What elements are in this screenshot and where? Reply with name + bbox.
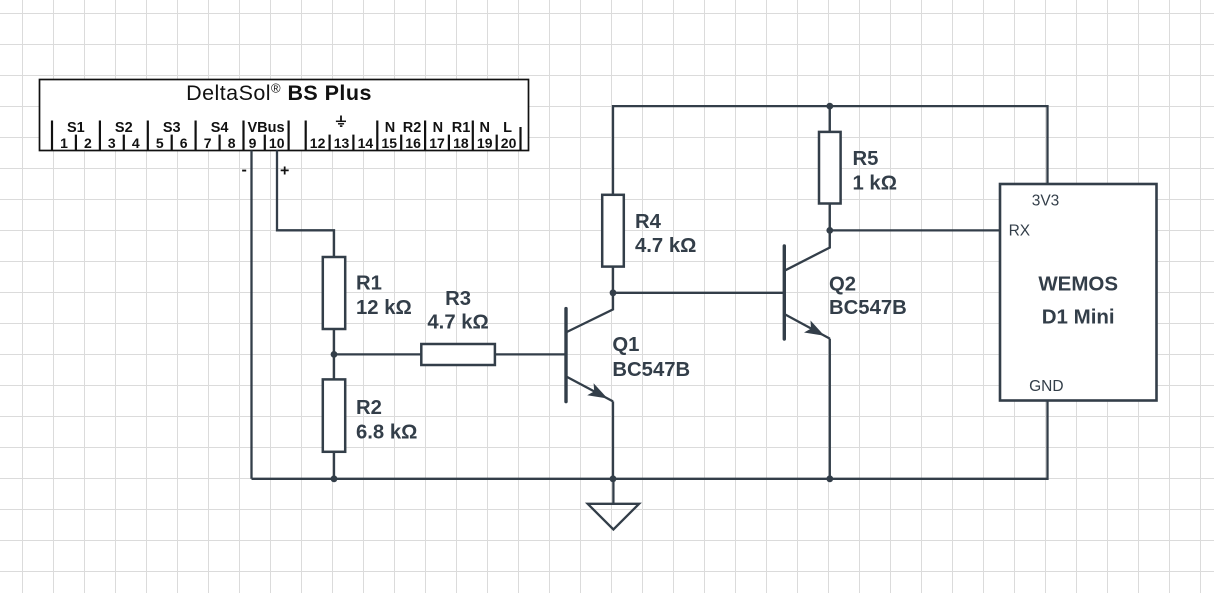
wire: terminal 9 (VBus -) down to ground rail [250, 150, 252, 478]
svg-text:N: N [479, 120, 489, 136]
svg-text:BC547B: BC547B [612, 359, 690, 381]
resistor R3 [421, 344, 495, 365]
wire: node A to R2 top [333, 354, 335, 379]
svg-text:6: 6 [180, 135, 188, 151]
svg-text:R2: R2 [403, 120, 422, 136]
wire: R5 bottom to node C [829, 204, 831, 231]
svg-text:N: N [433, 120, 443, 136]
wire: ground rail from minus wire to WEMOS GND pin [252, 401, 1048, 479]
junction dot Q2 emitter / ground rail [826, 475, 833, 482]
resistor R1 [323, 257, 345, 329]
svg-text:12: 12 [310, 135, 326, 151]
junction dot R5 / top rail [826, 103, 833, 110]
Q1 emitter arrowhead [587, 383, 607, 398]
junction dot Q1 emitter / ground rail [610, 475, 617, 482]
wire: node B to Q2 base [613, 292, 784, 294]
svg-text:4.7 kΩ: 4.7 kΩ [427, 312, 488, 334]
terminal divider ticks [52, 121, 521, 151]
junction dot R2/ground rail [331, 475, 338, 482]
WEMOS D1 Mini module U2 [1000, 184, 1157, 401]
svg-text:7: 7 [204, 135, 212, 151]
svg-text:BC547B: BC547B [829, 297, 907, 319]
transistor Q2 BC547B [784, 230, 830, 339]
wire: R2 bottom to ground rail [333, 452, 335, 479]
terminal pin numbers 1-20 [60, 135, 516, 151]
svg-text:5: 5 [156, 135, 164, 151]
svg-text:19: 19 [477, 135, 493, 151]
svg-text:1 kΩ: 1 kΩ [853, 172, 897, 194]
svg-text:RX: RX [1009, 222, 1031, 239]
svg-text:18: 18 [453, 135, 469, 151]
wire: R1 bottom to node A [333, 329, 335, 354]
svg-text:+: + [280, 163, 289, 180]
resistor R4 [602, 195, 624, 267]
svg-text:R2: R2 [356, 397, 382, 419]
svg-text:Q2: Q2 [829, 274, 856, 296]
transistor Q1 BC547B [566, 293, 613, 402]
svg-text:R1: R1 [356, 273, 382, 295]
svg-text:3V3: 3V3 [1032, 192, 1060, 209]
wire: node C to WEMOS RX pin [830, 229, 1000, 231]
svg-text:S2: S2 [115, 120, 133, 136]
Q2 emitter arrowhead [804, 321, 824, 336]
wire: R4 bottom to node B [612, 267, 614, 293]
wire: terminal 10 (VBus +) down and over to R1 top [277, 150, 334, 257]
svg-text:D1 Mini: D1 Mini [1042, 306, 1115, 329]
svg-text:17: 17 [429, 135, 445, 151]
svg-text:R3: R3 [445, 288, 471, 310]
svg-text:S4: S4 [211, 120, 229, 136]
svg-text:13: 13 [334, 135, 350, 151]
svg-text:10: 10 [269, 135, 285, 151]
svg-text:R4: R4 [635, 211, 662, 233]
svg-text:S3: S3 [163, 120, 181, 136]
svg-text:1: 1 [60, 135, 68, 151]
terminal group labels S1 S2 S3 S4 VBus N R2 N R1 N L [67, 120, 512, 136]
svg-text:8: 8 [228, 135, 236, 151]
ground symbol [588, 479, 639, 530]
svg-text:VBus: VBus [247, 120, 284, 136]
svg-text:16: 16 [405, 135, 421, 151]
svg-text:6.8 kΩ: 6.8 kΩ [356, 421, 417, 443]
node C junction dot (R5 / Q2 collector / RX) [826, 227, 833, 234]
resistor R5 [819, 132, 841, 204]
wire: top rail to R5 top [829, 106, 831, 132]
node B junction dot (R4 / Q1 collector / Q2 base) [610, 289, 617, 296]
earth symbol above terminal 13 [336, 116, 346, 127]
wire: Q1 emitter down to ground rail [612, 401, 614, 478]
svg-text:WEMOS: WEMOS [1038, 273, 1118, 296]
svg-text:-: - [242, 162, 247, 179]
svg-text:9: 9 [249, 135, 257, 151]
svg-text:N: N [385, 120, 395, 136]
resistor R2 [323, 379, 345, 451]
svg-text:GND: GND [1029, 378, 1063, 395]
node A junction dot (R1/R2/R3) [331, 351, 338, 358]
DeltaSol BS Plus controller box U3 [40, 80, 529, 151]
svg-text:L: L [503, 120, 512, 136]
wire: node A to R3 left [334, 353, 421, 355]
svg-text:2: 2 [84, 135, 92, 151]
svg-text:15: 15 [381, 135, 397, 151]
svg-text:Q1: Q1 [612, 334, 639, 356]
wire: 3V3 top rail from R4 riser to WEMOS 3V3 pin [613, 106, 1048, 195]
svg-text:R5: R5 [853, 148, 879, 170]
svg-text:3: 3 [108, 135, 116, 151]
wire: R3 right to Q1 base [495, 353, 566, 355]
svg-text:20: 20 [501, 135, 517, 151]
svg-text:12 kΩ: 12 kΩ [356, 297, 412, 319]
svg-text:14: 14 [358, 135, 374, 151]
svg-text:4: 4 [132, 135, 140, 151]
svg-text:R1: R1 [452, 120, 471, 136]
svg-text:4.7 kΩ: 4.7 kΩ [635, 235, 696, 257]
wire: Q2 emitter down to ground rail [829, 339, 831, 479]
svg-text:S1: S1 [67, 120, 85, 136]
